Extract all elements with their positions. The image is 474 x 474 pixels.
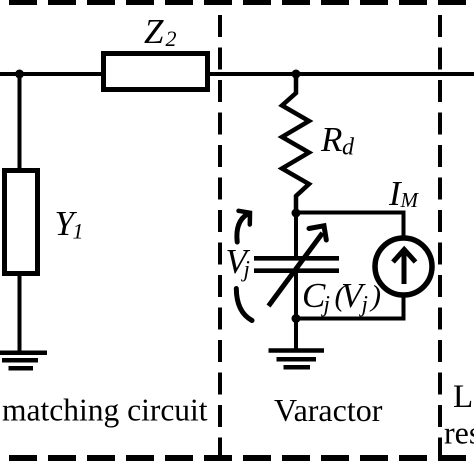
svg-text:R: R [320, 120, 342, 159]
svg-text:M: M [400, 188, 420, 212]
svg-text:1: 1 [73, 219, 84, 244]
svg-text:reso: reso [444, 415, 474, 451]
svg-text:): ) [369, 280, 381, 313]
svg-text:2: 2 [166, 26, 177, 51]
svg-text:Z: Z [144, 12, 164, 51]
svg-text:matching circuit: matching circuit [2, 393, 208, 428]
svg-text:Varactor: Varactor [274, 392, 383, 428]
svg-text:d: d [342, 135, 355, 161]
svg-text:L: L [453, 379, 473, 415]
svg-text:C: C [302, 276, 326, 315]
